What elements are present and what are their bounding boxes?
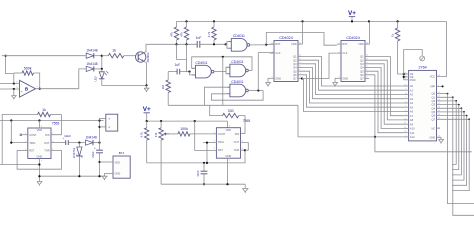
- wire U5 GND stem: [38, 159, 40, 182]
- junction U6 TRIG: [206, 142, 208, 144]
- svg-text:V+: V+: [348, 10, 356, 17]
- svg-text:B: B: [25, 86, 29, 91]
- svg-text:GND: GND: [275, 76, 281, 80]
- svg-text:1N4148: 1N4148: [86, 136, 97, 140]
- pin number U3 Q2: [299, 58, 302, 60]
- wire base feed: [102, 55, 109, 57]
- svg-text:RST: RST: [29, 149, 35, 153]
- pin number U4 Q6: [366, 73, 368, 75]
- wire U5 OUT: [51, 142, 66, 144]
- wire diode join: [101, 56, 103, 69]
- pin label U4 Q1: [360, 55, 364, 59]
- svg-text:330: 330: [228, 109, 234, 113]
- pin number U7 OE: [404, 75, 407, 77]
- wire base node: [146, 43, 197, 45]
- wire input lower: [0, 88, 20, 90]
- svg-text:1N4148: 1N4148: [86, 62, 97, 66]
- svg-text:Q2: Q2: [293, 58, 297, 62]
- svg-text:A7: A7: [410, 114, 414, 118]
- wire 1k rect right: [51, 114, 62, 116]
- gate U2B CD4011: [192, 61, 214, 78]
- wire C2 right riser: [186, 44, 188, 71]
- svg-text:TRIG: TRIG: [29, 141, 35, 145]
- wire U3 Q7 stub: [298, 78, 302, 80]
- wire storage col top: [99, 121, 101, 151]
- junction top rail: [368, 20, 370, 22]
- wire gate2 out: [214, 71, 226, 73]
- svg-text:Q4: Q4: [293, 66, 297, 70]
- svg-text:Q5: Q5: [293, 69, 297, 73]
- junction inverting input: [13, 82, 15, 84]
- wire R2 bottom: [186, 40, 188, 44]
- svg-text:1k: 1k: [112, 49, 116, 53]
- LED D3: [99, 71, 108, 79]
- pin label U4 CLK: [342, 51, 347, 55]
- label C4 22uF: [91, 151, 95, 158]
- pin label U6 RST: [218, 148, 224, 152]
- wire U7 A9 stub: [404, 123, 409, 125]
- wire opamp out: [36, 88, 79, 90]
- wire storage col bottom: [99, 153, 101, 176]
- wire U3 RST stub: [270, 43, 274, 45]
- svg-text:10uF: 10uF: [64, 134, 71, 138]
- resistor R10 100k: [178, 127, 190, 136]
- battery BT1: [113, 156, 130, 178]
- junction THR node: [244, 149, 246, 151]
- resistor R8 1k: [38, 108, 51, 117]
- pin label U6 VDD: [226, 128, 232, 132]
- svg-text:CD4011: CD4011: [233, 34, 245, 38]
- wire U5 DIS: [51, 115, 61, 135]
- wire data Q0 drop: [448, 94, 474, 204]
- junction top rail: [185, 20, 187, 22]
- wire U7 OE stub: [404, 76, 409, 78]
- wire TRIG to V+: [10, 121, 12, 143]
- svg-text:VDD: VDD: [291, 42, 297, 46]
- svg-text:Q1: Q1: [293, 55, 297, 59]
- svg-text:GND: GND: [342, 76, 348, 80]
- pin number U7 Q7: [438, 118, 441, 120]
- wire U3 Q6 stub: [298, 74, 302, 76]
- pin label U7 A10: [410, 127, 415, 131]
- wire U4 Q4 stub: [365, 67, 369, 69]
- wire U7 Q0 stub: [437, 93, 448, 95]
- wire gate1 tie: [227, 42, 228, 49]
- wire osc bus riser: [297, 105, 299, 137]
- junction data Q1: [452, 96, 454, 98]
- junction v+ col: [98, 119, 100, 121]
- wire osc out bus: [168, 104, 298, 106]
- wire C3 to D4: [69, 142, 85, 144]
- pin label U5 VDD: [37, 128, 43, 132]
- pin label U5 THR: [44, 149, 49, 153]
- pin label U4 Q5: [360, 69, 364, 73]
- svg-text:A6: A6: [410, 110, 414, 114]
- potentiometer RV1 47k: [154, 128, 163, 140]
- svg-text:1k: 1k: [42, 108, 46, 112]
- wire R11 bottom: [398, 41, 404, 74]
- junction top rail: [301, 20, 303, 22]
- IC U6 7555 timer: [216, 128, 240, 159]
- resistor R9 4.7k: [139, 128, 148, 140]
- pin number U7 A3: [405, 97, 407, 99]
- pin label U6 TRIG: [218, 140, 224, 144]
- svg-text:CD4011: CD4011: [231, 60, 243, 64]
- potentiometer RV1 47k wiper: [163, 132, 169, 135]
- svg-text:A10: A10: [410, 127, 415, 131]
- pin number U7 A0: [404, 84, 407, 86]
- wire R11 top: [397, 21, 399, 28]
- wire gnd drop: [244, 184, 246, 188]
- wire U7 Q4 stub: [437, 107, 462, 109]
- wire feedback top-left: [14, 72, 22, 74]
- junction data Q4: [461, 107, 463, 109]
- svg-text:A5: A5: [410, 105, 414, 109]
- pin label U4 Q4: [360, 66, 364, 70]
- svg-text:Q7: Q7: [293, 77, 297, 81]
- pin number U7 Q3: [438, 103, 441, 105]
- wire A12 down: [375, 137, 472, 152]
- svg-text:500k: 500k: [24, 67, 32, 71]
- pin label U3 Q7: [293, 77, 297, 81]
- pin label U3 RST: [275, 42, 281, 46]
- resistor R5 1k: [108, 49, 124, 58]
- wire 1k rect left: [2, 115, 37, 165]
- wire U4 VDD up: [369, 21, 371, 44]
- pin number U7 A12: [405, 135, 407, 137]
- junction diode join bottom: [101, 68, 103, 70]
- svg-text:8: 8: [41, 126, 43, 128]
- wire R6 riser: [167, 72, 169, 80]
- connector J1: [106, 114, 118, 131]
- svg-text:Q7: Q7: [432, 117, 436, 121]
- svg-text:4.7k: 4.7k: [139, 132, 143, 138]
- junction ctrl OE: [403, 76, 405, 78]
- svg-text:Q6: Q6: [293, 73, 297, 77]
- wire U5 VDD: [38, 121, 40, 129]
- pin label U7 PGM: [410, 79, 416, 82]
- pin numbers U3: [271, 42, 302, 78]
- wire bus U4 Q5 to A11: [369, 71, 404, 133]
- junction U3 Q7: [301, 77, 303, 79]
- wire gate3 tie: [225, 67, 228, 74]
- junction noninverting input: [13, 88, 15, 90]
- resistor R4 500k: [22, 67, 34, 76]
- svg-text:VCC: VCC: [430, 76, 435, 79]
- wire D4 out: [94, 142, 100, 144]
- pin label U6 DIS: [235, 132, 240, 136]
- wire LED top: [101, 69, 103, 72]
- wire emitter: [144, 61, 147, 85]
- label C3 10uF: [64, 134, 71, 138]
- junction data Q0: [447, 93, 449, 95]
- pin number U4 Q4: [366, 66, 368, 68]
- svg-text:7555: 7555: [243, 119, 251, 123]
- wire 330 drop: [210, 105, 223, 115]
- svg-text:GND: GND: [226, 154, 232, 158]
- pin label U7 CE: [410, 73, 414, 76]
- wire BT VDD: [100, 161, 114, 163]
- svg-text:CONT: CONT: [29, 133, 37, 137]
- svg-text:VPP: VPP: [430, 86, 435, 89]
- pin number U3 Q6: [299, 73, 301, 75]
- wire R6 bottom: [167, 93, 169, 106]
- svg-text:Q3: Q3: [360, 62, 364, 66]
- wire cascade: [302, 53, 337, 78]
- svg-text:Q5: Q5: [360, 69, 364, 73]
- wire U4 Q7 stub: [365, 78, 369, 80]
- svg-text:10nF: 10nF: [196, 170, 200, 177]
- pin number U4 Q2: [366, 58, 369, 60]
- pin number U4 Q7: [366, 77, 368, 79]
- wire zener top: [78, 143, 80, 147]
- diode D1 1N4148: [86, 49, 98, 59]
- pin label U7 Q6: [432, 114, 436, 118]
- power V+ symbol 2: [143, 106, 151, 121]
- pin label U7 A11: [410, 131, 415, 135]
- pin number U7 A5: [405, 106, 407, 108]
- pin label U7 A8: [410, 118, 414, 122]
- pin label U4 RST: [342, 42, 348, 46]
- pin label U5 RST: [29, 149, 35, 153]
- svg-text:PGM: PGM: [410, 79, 416, 82]
- svg-text:Q6: Q6: [360, 73, 364, 77]
- pin number U7 A10: [404, 127, 407, 129]
- pin number U7 A7: [405, 114, 407, 116]
- svg-text:RST: RST: [218, 148, 224, 152]
- pin number U3 Q1: [299, 55, 302, 57]
- wire out riser: [79, 69, 86, 89]
- svg-text:1: 1: [41, 161, 43, 163]
- pin label U7 Q3: [432, 103, 436, 107]
- pin label U6 GND: [226, 154, 232, 158]
- svg-text:1uF: 1uF: [175, 63, 181, 67]
- wire osc rail: [147, 120, 228, 122]
- junction top rail: [213, 20, 215, 22]
- wire osc wire2: [161, 183, 245, 185]
- wire bus U3 Q5 to A4: [302, 71, 404, 103]
- wire U7 A0 stub: [404, 85, 409, 87]
- pin label U7 A2: [410, 93, 414, 97]
- ground U5: [37, 182, 42, 186]
- svg-text:Q4: Q4: [360, 66, 364, 70]
- junction data Q6: [466, 115, 468, 117]
- svg-text:1N4148: 1N4148: [86, 49, 97, 53]
- wire U7 VPP stub: [437, 85, 442, 87]
- wire U4 CLK stub: [337, 52, 341, 54]
- wire ctrl tie: [403, 74, 405, 80]
- junction C5 gnd: [203, 183, 205, 185]
- wire rail corner to R1 top: [176, 21, 178, 27]
- wire data Q2 drop: [452, 101, 456, 164]
- pin number U7 Q2: [438, 99, 441, 101]
- pin label BT GND: [115, 172, 121, 176]
- pin label U7 VPP: [430, 86, 435, 89]
- svg-text:A11: A11: [410, 131, 415, 135]
- pin label U3 Q5: [293, 69, 297, 73]
- pin label U7 Q2: [432, 99, 436, 103]
- wire C2 right: [180, 71, 190, 73]
- svg-text:1N4742: 1N4742: [72, 147, 76, 158]
- junction gnd wireA: [38, 163, 40, 165]
- capacitor C4 22uF: [94, 146, 103, 153]
- junction op-amp output: [39, 88, 41, 90]
- svg-text:+: +: [21, 90, 23, 94]
- junction C2 out: [188, 71, 190, 73]
- pin numbers U7 power: [438, 75, 441, 138]
- svg-text:4: 4: [213, 148, 215, 150]
- wire U7 Q6 stub: [437, 115, 467, 117]
- svg-text:VDD: VDD: [358, 42, 364, 46]
- wire bus U4 Q4 to A10: [369, 68, 404, 129]
- pin label U4 Q6: [360, 73, 364, 77]
- svg-text:Q1: Q1: [432, 95, 436, 99]
- capacitor C5 10nF: [201, 171, 208, 174]
- pin label U4 VDD: [358, 42, 364, 46]
- wire BT GND: [105, 172, 114, 174]
- wire bus U3 Q3 to A2: [302, 64, 404, 95]
- junction D4 out: [98, 142, 100, 144]
- label U7 2764: [418, 65, 426, 69]
- capacitor C3 10uF: [62, 137, 68, 145]
- wire U4 RST stub: [337, 43, 341, 45]
- svg-text:8: 8: [229, 126, 231, 128]
- wire osc wire1: [147, 150, 245, 163]
- zener D5 1N4742: [72, 147, 82, 158]
- wire gate1 out: [250, 43, 274, 46]
- wire U7 A2 stub: [404, 94, 409, 96]
- svg-text:«: «: [108, 126, 110, 130]
- wire U7 A5 stub: [404, 106, 409, 108]
- svg-text:Q3: Q3: [432, 103, 436, 107]
- wire U3 Q1 stub: [298, 56, 302, 58]
- pin numbers U5: [25, 126, 54, 163]
- svg-text:CD4024: CD4024: [346, 36, 360, 40]
- svg-text:NC: NC: [431, 127, 435, 130]
- wire bus U3 Q1 to A0: [302, 57, 404, 87]
- gate U2C CD4011: [227, 60, 249, 77]
- op-amp U1B: [16, 80, 39, 97]
- svg-text:DIS: DIS: [235, 132, 240, 136]
- junction gate4 out: [257, 89, 259, 91]
- wire U7 GND stub: [437, 137, 442, 139]
- junction R2 bottom: [185, 43, 187, 45]
- junction ctrl CE: [403, 73, 405, 75]
- ground U3: [266, 83, 271, 87]
- wire U7 Q1 stub: [437, 96, 453, 98]
- svg-text:CD4011: CD4011: [231, 80, 243, 84]
- svg-text:RST: RST: [342, 42, 348, 46]
- pin number U7 Q4: [438, 107, 441, 109]
- wire R5 to base: [124, 55, 136, 57]
- wire U7 A11 stub: [404, 132, 409, 134]
- pin label U3 Q1: [293, 55, 297, 59]
- wire data Q1 drop: [453, 97, 474, 215]
- resistor R6 1M: [161, 80, 170, 93]
- svg-text:V+: V+: [143, 106, 151, 113]
- wire bus U3 Q2 to A1: [302, 60, 404, 90]
- svg-text:GND: GND: [430, 136, 436, 139]
- wire U4 GND drop: [334, 78, 336, 82]
- svg-text:A8: A8: [410, 118, 414, 122]
- wire U7 VCC: [437, 21, 447, 76]
- wire U5 TRIG: [11, 142, 28, 144]
- wire U7 A7 stub: [404, 115, 409, 117]
- svg-text:THR: THR: [234, 148, 239, 152]
- svg-text:TRIG: TRIG: [218, 140, 224, 144]
- wire U4 Q1 stub: [365, 56, 369, 58]
- svg-text:4.7k: 4.7k: [207, 31, 211, 37]
- gate U2D CD4011: [227, 80, 249, 97]
- svg-text:2N3904: 2N3904: [146, 52, 150, 62]
- wire feedback right: [34, 73, 40, 89]
- capacitor C1 1nF: [196, 36, 202, 48]
- wire D1 out: [95, 55, 103, 57]
- junction osc bus top: [222, 56, 224, 58]
- wire U4 GND stub: [335, 77, 341, 79]
- pin number U4 Q3: [366, 62, 368, 64]
- pin label U7 A6: [410, 110, 414, 114]
- junction osc rail R9: [146, 120, 148, 122]
- nc marker U5 CONT: [20, 134, 22, 136]
- svg-text:«: «: [108, 117, 110, 121]
- resistor R3 4.7k: [207, 27, 216, 40]
- wire U4 Q2 stub: [365, 59, 369, 61]
- junction emitter ground: [145, 84, 147, 86]
- pin label U7 VCC: [430, 76, 435, 79]
- IC U3 CD4024 counter: [274, 41, 298, 82]
- IC U4 CD4024 counter: [341, 41, 365, 82]
- svg-text:1nF: 1nF: [196, 36, 202, 40]
- ground emitter: [144, 88, 149, 92]
- svg-text:Q4: Q4: [432, 106, 436, 110]
- wire U7 A3 stub: [404, 98, 409, 100]
- nc marker U7 VPP: [442, 85, 444, 87]
- junction R1 bottom: [175, 43, 177, 45]
- junction summing node: [5, 55, 7, 57]
- pin label U7 Q4: [432, 106, 436, 110]
- wire C5 bottom: [203, 174, 205, 184]
- wire noninv to ground: [13, 89, 15, 93]
- ground op-amp input: [11, 96, 16, 100]
- connector pin marks: [108, 117, 110, 130]
- wire RST drop: [195, 121, 217, 150]
- wire U6 TRIG tie: [203, 142, 216, 144]
- label LED: [94, 76, 98, 81]
- junction gate1 input: [225, 43, 227, 45]
- svg-text:47k: 47k: [169, 32, 173, 37]
- ground EPROM: [439, 140, 444, 144]
- wire U7 Q7 stub: [437, 118, 470, 120]
- svg-text:GND: GND: [115, 172, 121, 176]
- pin label U5 GND: [37, 154, 43, 158]
- pin label U3 Q6: [293, 73, 297, 77]
- junction U6 gnd: [226, 183, 228, 185]
- svg-text:VDD: VDD: [37, 128, 43, 132]
- pin number U3 Q7: [299, 77, 301, 79]
- wire R9 top: [146, 121, 148, 128]
- svg-text:LED: LED: [94, 76, 98, 81]
- pin label U6 OUT: [234, 140, 240, 144]
- wire 330 to DIS: [239, 116, 245, 134]
- label BT1: [119, 151, 125, 155]
- wire U6 VDD: [227, 121, 229, 128]
- wire BT GND drop: [104, 173, 106, 176]
- wire V+ left rail: [0, 120, 104, 122]
- wire zener bottom: [78, 157, 80, 176]
- pin label U7 A1: [410, 88, 414, 92]
- wire gnd stub emitter: [146, 85, 148, 88]
